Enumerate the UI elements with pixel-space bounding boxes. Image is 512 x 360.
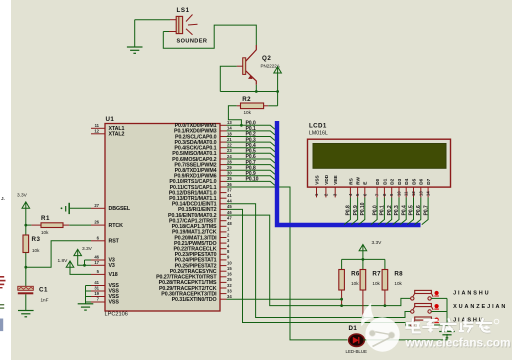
svg-text:D2: D2 [390, 178, 395, 184]
pin P0.29/TRACEPKT2/TCK (32) [159, 283, 232, 292]
wire [342, 258, 385, 260]
pin P0.30/TRACEPKT3/TDI (33) [161, 288, 232, 297]
wire LCD D2 to bus (net P0.2) [385, 197, 393, 224]
wire [227, 298, 342, 300]
svg-text:D0: D0 [375, 178, 380, 184]
wire LCD D7 to bus (net P0.7) [422, 197, 430, 224]
pin P0.31/EXTIN0/TDO (34) [172, 294, 233, 303]
svg-text:C1: C1 [39, 287, 48, 294]
wire [362, 251, 364, 260]
svg-text:22: 22 [227, 143, 232, 148]
button JIANSHU [411, 290, 491, 300]
pin P0.17/CAP1.2/TRST (47) [169, 216, 232, 225]
junction R7/H3 [362, 316, 365, 319]
button JIASHU [411, 317, 485, 327]
wire [220, 91, 277, 93]
svg-text:36: 36 [227, 182, 232, 187]
wire net P0.2 [227, 132, 275, 141]
svg-text:LCD1: LCD1 [309, 123, 327, 130]
pin DBGSEL (27) [91, 203, 131, 212]
wire LCD E to bus (net P0.10) [359, 197, 367, 224]
pin P0.10/RTS1/CAP1.0 (35) [169, 176, 232, 185]
IC U1 LPC2106 [105, 124, 220, 312]
svg-text:E: E [363, 182, 368, 185]
svg-text:44: 44 [227, 199, 232, 204]
pin P0.27/TRACEPKT0/TRST (16) [156, 272, 232, 281]
wire [85, 259, 92, 261]
wire [341, 259, 343, 269]
svg-text:XTAL2: XTAL2 [109, 132, 125, 138]
svg-text:14: 14 [227, 126, 232, 131]
junction [24, 266, 27, 269]
wire [446, 298, 448, 331]
junction (R2 to P0.0 net) [240, 124, 243, 127]
wire net P0.4 [227, 143, 275, 152]
pin P0.2/SCL/CAP0.0 (18) [175, 131, 232, 140]
svg-text:25: 25 [227, 277, 232, 282]
svg-text:26: 26 [94, 220, 99, 225]
pin RST (6) [91, 235, 120, 244]
wire [85, 286, 87, 304]
svg-text:13: 13 [418, 191, 423, 196]
wire [86, 286, 92, 303]
pin P0.12/DSR1/MAT1.0 (37) [169, 187, 233, 196]
wire [135, 19, 170, 21]
wire [70, 207, 91, 209]
button XUANZEJIAN [411, 304, 508, 314]
svg-text:29: 29 [227, 165, 232, 170]
svg-text:JIANSHU: JIANSHU [453, 291, 490, 297]
pin P0.21/PWM5/TDO (3) [174, 238, 230, 247]
pin VSS (41) [91, 280, 119, 289]
svg-text:12: 12 [411, 191, 416, 196]
wire [431, 324, 447, 326]
junction [255, 90, 258, 93]
svg-text:R1: R1 [41, 215, 50, 222]
capacitor C1 [18, 286, 49, 302]
resistor R6 [339, 270, 360, 291]
pin P0.23/PIPESTAT0 (8) [175, 249, 230, 258]
svg-text:RTCK: RTCK [109, 223, 124, 229]
wire [70, 267, 91, 274]
pin P0.26/TRACESYNC (15) [170, 266, 233, 275]
wire LCD D4 to bus (net P0.4) [400, 197, 408, 224]
svg-text:LPC2106: LPC2106 [105, 311, 128, 317]
svg-text:11: 11 [95, 123, 100, 128]
svg-text:D4: D4 [404, 178, 409, 184]
junction R6/H1 [340, 298, 343, 301]
svg-text:33: 33 [227, 288, 232, 293]
pin V3 (46) [91, 255, 115, 264]
svg-text:30: 30 [227, 171, 232, 176]
svg-text:D7: D7 [426, 178, 431, 184]
svg-text:18: 18 [227, 131, 232, 136]
LCD pin D0 (7) [375, 178, 380, 197]
svg-text:14: 14 [426, 191, 431, 196]
wire [25, 208, 27, 235]
left margin strip [0, 0, 11, 360]
svg-text:VSS: VSS [109, 300, 120, 306]
LCD pin D4 (11) [404, 178, 409, 197]
transistor Q2 [237, 45, 280, 85]
wire LCD RS to bus (net P0.8) [344, 197, 352, 224]
svg-text:24: 24 [227, 154, 232, 159]
power +3.3V (left) [17, 193, 30, 209]
svg-text:P0.31/EXTIN0/TDO: P0.31/EXTIN0/TDO [172, 297, 217, 303]
svg-text:LS1: LS1 [177, 7, 190, 14]
wire [25, 294, 27, 310]
pin P0.5/MISO/MAT0.1 (23) [172, 148, 232, 157]
svg-text:P0.0: P0.0 [372, 205, 378, 215]
pin P0.8/TXD1/PWM4 (29) [175, 165, 233, 174]
resistor R8 [382, 270, 403, 291]
svg-text:34: 34 [227, 294, 232, 299]
svg-text:1nF: 1nF [41, 298, 49, 303]
LCD pin RW (5) [355, 176, 360, 197]
wire [268, 105, 277, 107]
svg-text:23: 23 [227, 148, 232, 153]
LCD pin D2 (9) [389, 178, 394, 197]
wire [431, 297, 447, 299]
svg-text:21: 21 [227, 137, 232, 142]
svg-text:19: 19 [94, 291, 99, 296]
junction [276, 90, 279, 93]
junction [83, 264, 86, 267]
wire [134, 20, 136, 47]
svg-text:P0.3: P0.3 [394, 205, 400, 215]
svg-text:R6: R6 [351, 271, 360, 278]
pin P0.22/TRACECLK (4) [173, 244, 230, 253]
resistor R2 [237, 96, 269, 115]
LCD pin VSS (1) [314, 175, 319, 197]
svg-text:V18: V18 [109, 272, 118, 278]
svg-text:41: 41 [94, 280, 99, 285]
svg-text:10: 10 [397, 191, 402, 196]
resistor R3 [23, 235, 40, 253]
svg-text:1.8V: 1.8V [58, 258, 69, 264]
svg-text:R3: R3 [32, 236, 41, 243]
wire [163, 25, 256, 48]
pin RTCK (26) [91, 220, 123, 229]
LCD pin D3 (10) [397, 178, 402, 197]
svg-text:RST: RST [109, 239, 120, 245]
svg-text:10k: 10k [41, 230, 49, 235]
wire [384, 259, 386, 269]
wire [85, 264, 92, 266]
svg-text:J.: J. [1, 196, 5, 201]
pin P0.13/DTR1/MAT1.1 (41) [169, 193, 232, 202]
svg-text:P0.10: P0.10 [360, 202, 366, 215]
LCD pin D6 (13) [418, 178, 423, 197]
LCD pin VDD (2) [323, 174, 328, 197]
wire [255, 85, 257, 92]
wire [227, 204, 411, 318]
svg-text:28: 28 [227, 159, 232, 164]
svg-text:D5: D5 [411, 178, 416, 184]
svg-text:P0.1: P0.1 [380, 205, 386, 215]
pin P0.25/PIPESTAT2 (10) [175, 260, 233, 269]
svg-text:VDD: VDD [324, 174, 329, 185]
pin P0.20/MAT1.3/TDI (2) [174, 232, 230, 241]
wire [25, 253, 27, 287]
wire net P0.9 [227, 171, 275, 180]
svg-text:3.3V: 3.3V [372, 240, 383, 246]
pin V3 (17) [91, 260, 115, 269]
svg-text:35: 35 [227, 176, 232, 181]
svg-text:12: 12 [94, 128, 99, 133]
wire [228, 106, 241, 126]
svg-text:10k: 10k [351, 281, 359, 286]
svg-text:VEE: VEE [333, 175, 338, 184]
wire [363, 334, 447, 340]
svg-text:P0.9: P0.9 [353, 205, 359, 215]
junction R8/H2 [384, 304, 387, 307]
wire [227, 209, 411, 325]
svg-text:Q2: Q2 [262, 55, 271, 62]
wire LCD D5 to bus (net P0.5) [407, 197, 415, 224]
wire net P0.6 [227, 154, 275, 163]
pin P0.4/SCK/CAP0.1 (22) [174, 143, 232, 152]
svg-text:P0.8: P0.8 [346, 205, 352, 215]
sounder LS1 [169, 7, 207, 45]
svg-text:17: 17 [94, 260, 99, 265]
svg-text:10k: 10k [32, 248, 40, 253]
ground (VSS) [78, 304, 94, 310]
svg-text:3.3V: 3.3V [17, 193, 28, 199]
pin V18 (5) [91, 269, 118, 278]
svg-text:D1: D1 [349, 325, 358, 332]
svg-text:R8: R8 [394, 271, 403, 278]
svg-text:10: 10 [227, 260, 232, 265]
resistor R1 [31, 215, 69, 235]
wire net P0.3 [227, 137, 275, 146]
svg-text:P0.10: P0.10 [246, 177, 259, 183]
wire net P0.7 [227, 160, 275, 169]
power +1.8V [58, 258, 74, 267]
svg-text:27: 27 [94, 203, 99, 208]
svg-text:RW: RW [356, 176, 361, 184]
pin P0.14/DCD1/EINT1 (44) [172, 199, 232, 208]
bus P0 [277, 121, 421, 225]
svg-text:46: 46 [227, 210, 232, 215]
svg-text:D3: D3 [397, 178, 402, 184]
ground (buttons) [439, 332, 455, 338]
pin VSS (7) [91, 297, 119, 306]
LCD LCD1 LM016L [308, 123, 451, 188]
svg-text:RS: RS [348, 178, 353, 185]
svg-text:31: 31 [94, 286, 99, 291]
wire [227, 187, 348, 340]
svg-text:48: 48 [227, 221, 232, 226]
resistor R7 [360, 270, 381, 291]
svg-text:LM016L: LM016L [309, 130, 328, 136]
wire net P0.8 [227, 165, 275, 174]
svg-text:D6: D6 [419, 178, 424, 184]
wire net P0.0 [227, 121, 275, 130]
wire net P0.5 [227, 149, 275, 158]
svg-text:SOUNDER: SOUNDER [177, 39, 208, 45]
pin P0.3/SDA/MAT0.0 (21) [175, 137, 233, 146]
svg-text:37: 37 [227, 187, 232, 192]
pin VSS (19) [91, 291, 119, 300]
wire LCD D1 to bus (net P0.1) [378, 197, 386, 224]
wire LCD D6 to bus (net P0.6) [415, 197, 423, 224]
pin VSS (31) [91, 286, 119, 295]
svg-text:46: 46 [94, 255, 99, 260]
wire net P0.10 [227, 177, 275, 186]
pin P0.11/CTS1/CAP1.1 (36) [170, 182, 233, 191]
pin XTAL1 (11) [91, 123, 125, 132]
wire [277, 73, 279, 106]
svg-text:DBGSEL: DBGSEL [109, 206, 131, 212]
LCD pin D7 (14) [426, 178, 431, 197]
svg-text:www.elecfans.com: www.elecfans.com [405, 336, 511, 350]
pin P0.6/MOSI/CAP0.2 (24) [172, 154, 232, 163]
wire [362, 259, 364, 269]
svg-text:D1: D1 [382, 178, 387, 184]
pin P0.24/PIPESTAT1 (9) [175, 255, 230, 264]
svg-text:XUANZEJIAN: XUANZEJIAN [453, 304, 507, 310]
svg-text:P0.7: P0.7 [423, 205, 429, 215]
svg-text:P0.6: P0.6 [416, 205, 422, 215]
svg-text:10k: 10k [394, 281, 402, 286]
svg-text:11: 11 [404, 191, 409, 196]
svg-text:LED-BLUE: LED-BLUE [346, 349, 368, 354]
wire [431, 311, 447, 313]
svg-text:3.3V: 3.3V [82, 246, 93, 252]
pin P0.7/SSEL/PWM2 (28) [174, 159, 232, 168]
LCD pin E (6) [362, 182, 367, 198]
pin P0.15/RI1/EINT2 (45) [178, 204, 232, 213]
wire [163, 31, 169, 33]
wire net P0.1 [227, 126, 275, 135]
svg-text:15: 15 [227, 266, 232, 271]
wire [220, 66, 237, 91]
svg-text:R2: R2 [242, 96, 251, 103]
svg-text:10k: 10k [244, 110, 252, 115]
wire LCD RW to bus (net P0.9) [351, 197, 359, 224]
svg-text:13: 13 [227, 120, 232, 125]
svg-text:32: 32 [227, 283, 232, 288]
LCD pin D5 (12) [411, 178, 416, 197]
junction [24, 224, 27, 227]
power +3.3V (pullups) [359, 240, 382, 251]
pin P0.19/MAT1.2/TCK (1) [172, 227, 230, 236]
LCD pin VEE (3) [333, 175, 338, 197]
svg-text:47: 47 [227, 216, 232, 221]
pin P0.28/TRACEPKT1/TMS (25) [159, 277, 233, 286]
wire [69, 224, 91, 226]
pin P0.18/CAP1.3/TMS (48) [172, 221, 233, 230]
wire [26, 224, 32, 226]
pin XTAL2 (12) [91, 128, 125, 137]
LCD pin RS (4) [348, 178, 353, 197]
pin P0.9/RXD1/PWM6 (30) [174, 171, 232, 180]
ground (speaker) [127, 47, 143, 53]
svg-text:10k: 10k [372, 281, 380, 286]
svg-text:VSS: VSS [314, 175, 319, 184]
power +3.3V (V3 pins) [74, 246, 93, 256]
wire LCD D3 to bus (net P0.3) [393, 197, 401, 224]
svg-text:41: 41 [227, 193, 232, 198]
svg-text:45: 45 [227, 204, 232, 209]
wire LCD D0 to bus (net P0.0) [371, 197, 379, 224]
pin P0.1/RXD0/PWM3 (14) [174, 126, 232, 135]
svg-text:U1: U1 [106, 116, 115, 123]
LED D1 [346, 325, 368, 354]
svg-text:R7: R7 [372, 271, 381, 278]
watermark (decorative) [361, 303, 400, 352]
wire [227, 215, 411, 306]
pin P0.16/EINT0/MAT0.2 (46) [168, 210, 232, 219]
LCD pin D1 (8) [382, 178, 387, 197]
svg-text:P0.2: P0.2 [387, 205, 393, 215]
DBGSEL terminator [61, 203, 70, 214]
svg-text:16: 16 [227, 272, 232, 277]
pin P0.0/TXD0/PWM1 (13) [175, 120, 233, 129]
ground (C1) [18, 311, 34, 317]
svg-text:V3: V3 [109, 263, 115, 269]
wire [78, 256, 85, 266]
wire [26, 241, 91, 267]
wire [84, 260, 86, 265]
junction R6/H2 [340, 304, 343, 307]
svg-text:P0.4: P0.4 [401, 205, 407, 215]
svg-text:P0.5: P0.5 [409, 205, 415, 215]
